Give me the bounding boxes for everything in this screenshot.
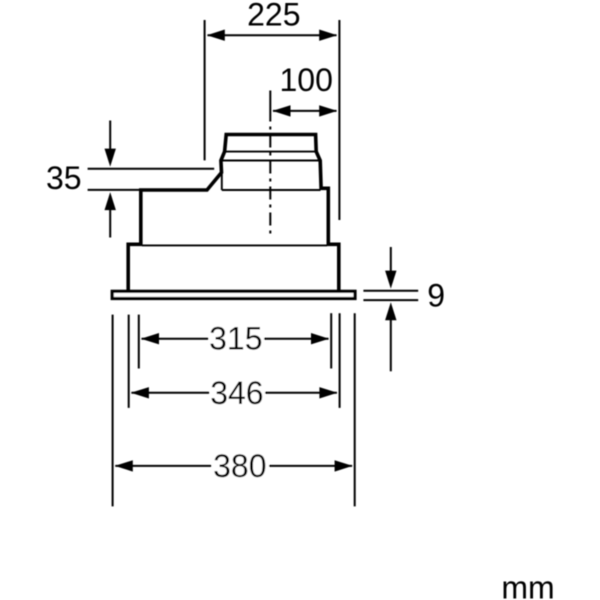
svg-text:35: 35 <box>46 160 82 196</box>
svg-text:mm: mm <box>501 569 554 600</box>
svg-text:315: 315 <box>209 321 262 357</box>
svg-text:225: 225 <box>247 0 300 33</box>
svg-text:100: 100 <box>280 62 333 98</box>
svg-text:346: 346 <box>210 375 263 411</box>
svg-text:380: 380 <box>213 448 266 484</box>
svg-text:9: 9 <box>427 278 445 314</box>
